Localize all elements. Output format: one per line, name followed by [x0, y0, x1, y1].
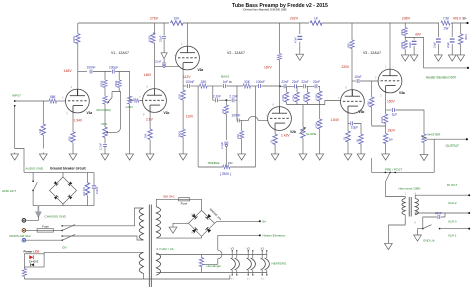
- svg-text:47K: 47K: [347, 43, 351, 48]
- svg-text:Hammond 108N: Hammond 108N: [399, 186, 421, 190]
- resistor 1K 3W: [383, 134, 387, 144]
- ground V1a cathode: [69, 153, 77, 161]
- svg-text:Derived from Marshall JCM 800: Derived from Marshall JCM 800 1986: [244, 8, 288, 12]
- diode bridge d1: [192, 213, 198, 219]
- transformer OT core: [409, 197, 411, 217]
- capacitor 10uF bypass: [351, 122, 353, 126]
- resistor 470K row3: [305, 92, 309, 102]
- svg-text:LIN: LIN: [228, 161, 233, 165]
- svg-text:470K: 470K: [281, 95, 285, 101]
- resistor 100K bleeder: [459, 34, 463, 45]
- svg-text:7.5K: 7.5K: [443, 17, 450, 21]
- wire MidFreq pot to MID pot: [104, 104, 106, 127]
- svg-text:470K: 470K: [114, 80, 118, 87]
- svg-text:470K: 470K: [292, 95, 296, 101]
- svg-text:2W: 2W: [444, 27, 449, 31]
- capacitor 2.2nF left: [216, 98, 218, 102]
- wire bottom return: [24, 274, 230, 280]
- wire filter cap 2: [451, 23, 453, 54]
- svg-text:100nF: 100nF: [185, 80, 194, 84]
- op V3a triode: [378, 69, 402, 93]
- fuse HT: [179, 198, 190, 201]
- svg-text:DI OUT: DI OUT: [447, 183, 457, 187]
- wire to 100nF: [251, 85, 258, 87]
- capacitor 100nF coupling: [90, 70, 92, 74]
- svg-text:22µF: 22µF: [159, 35, 163, 42]
- wire to 1nF: [207, 85, 223, 87]
- ground V1b cathode: [146, 153, 154, 161]
- svg-text:68K: 68K: [50, 95, 57, 99]
- svg-text:22nF: 22nF: [301, 80, 308, 84]
- resistor 7.5K 2W on rail: [441, 21, 450, 25]
- wire OT secondary top to XLR2: [415, 195, 469, 198]
- ground OT primary: [385, 242, 393, 250]
- capacitor 100nF tone out: [259, 84, 261, 88]
- svg-text:401V: 401V: [453, 16, 462, 20]
- ground V2a cathode: [179, 153, 187, 161]
- wire branch decoupling: [163, 23, 165, 53]
- svg-text:40V: 40V: [415, 32, 422, 36]
- wire input sleeve down: [15, 106, 24, 173]
- wire cap to V3a grid: [360, 80, 378, 82]
- svg-text:V3 - 12AU7: V3 - 12AU7: [363, 51, 381, 55]
- wire heater top: [156, 254, 266, 256]
- wire humdinger ends: [201, 255, 203, 273]
- resistor 100 1W breaker: [85, 183, 89, 196]
- svg-text:47nF: 47nF: [294, 37, 298, 43]
- svg-text:Fuse: Fuse: [181, 202, 188, 206]
- svg-text:AUDIO GND: AUDIO GND: [26, 167, 44, 171]
- svg-text:XLR-2: XLR-2: [448, 201, 457, 205]
- ground bridge minus: [169, 226, 177, 234]
- wire master bottom to ground: [423, 143, 425, 153]
- svg-text:33K: 33K: [201, 80, 208, 84]
- resistor 100K V1a plate load: [76, 34, 80, 44]
- capacitor 2.2uF on treble feed: [224, 142, 228, 144]
- terminal N ring: [22, 238, 26, 242]
- node circle under cap: [163, 65, 165, 67]
- switch pre/post blade: [386, 172, 391, 181]
- wire treble pot bottom: [198, 166, 255, 168]
- capacitor 1nF tone: [224, 84, 226, 88]
- svg-text:470K: 470K: [314, 122, 318, 128]
- svg-text:2.2nF: 2.2nF: [213, 94, 221, 98]
- svg-text:Humdinger: Humdinger: [207, 264, 222, 268]
- capacitor 22uF divider: [412, 41, 417, 44]
- svg-text:220V: 220V: [342, 65, 351, 69]
- svg-text:MAINS 230 VAC: MAINS 230 VAC: [10, 234, 31, 238]
- svg-text:1.42V: 1.42V: [281, 133, 290, 137]
- ground input: [11, 153, 19, 161]
- ground bleeder: [457, 54, 465, 62]
- diode bridge d2: [205, 214, 211, 220]
- ground 470K column: [316, 153, 324, 161]
- wire PE to chassis: [26, 216, 39, 220]
- connector heater V1: [261, 250, 270, 275]
- resistor 820 V1a cathode: [71, 132, 75, 143]
- svg-text:V1a: V1a: [87, 111, 93, 115]
- wire V1b plate riser: [153, 23, 155, 89]
- svg-text:CHASSIS GND: CHASSIS GND: [45, 215, 67, 219]
- box LED: [24, 254, 44, 267]
- resistor grid stopper V1b: [134, 99, 140, 103]
- wire bridged-T left drop: [213, 86, 215, 100]
- svg-text:Power LED: Power LED: [24, 249, 41, 253]
- wire N to switch: [26, 239, 63, 241]
- svg-text:47K: 47K: [366, 101, 370, 106]
- wire 100nF to V2b grid: [236, 100, 238, 120]
- resistor 1K V3b cathode: [346, 131, 350, 142]
- wire bus under resistors: [287, 101, 320, 153]
- wire tone stack right leg: [255, 86, 257, 167]
- svg-text:TREBLE: TREBLE: [208, 161, 220, 165]
- arrow down: [161, 53, 167, 59]
- svg-text:47K: 47K: [236, 134, 240, 139]
- resistor V2a cathode lower: [181, 129, 185, 137]
- resistor 1M bridged-T: [224, 105, 228, 114]
- svg-text:2.2nF: 2.2nF: [99, 143, 103, 150]
- svg-text:187V: 187V: [264, 65, 273, 69]
- svg-text:V3a: V3a: [399, 91, 405, 95]
- svg-text:V2: V2: [246, 246, 250, 250]
- ground snubber: [296, 53, 304, 61]
- resistor 100K V3a cathode: [383, 114, 387, 124]
- connector heater V3: [231, 250, 240, 275]
- node V1a plate junction: [78, 71, 87, 73]
- resistor V1b cathode: [148, 129, 152, 140]
- ground grid leak: [238, 153, 246, 161]
- wire bridge plus to B+: [215, 221, 260, 223]
- svg-text:Heater Elevation 60V: Heater Elevation 60V: [426, 75, 457, 79]
- wire cap row: [280, 86, 320, 91]
- svg-text:OUTPUT: OUTPUT: [446, 144, 460, 148]
- potentiometer MID: [103, 127, 107, 138]
- svg-text:} 250K {: } 250K {: [220, 172, 232, 176]
- wire cathode output branch: [386, 109, 392, 111]
- svg-text:3W: 3W: [389, 138, 394, 142]
- svg-text:V1b: V1b: [164, 111, 170, 115]
- op V1a triode: [66, 89, 90, 113]
- svg-text:Mid FREQ: Mid FREQ: [97, 108, 112, 112]
- terminal L ring: [22, 229, 26, 233]
- resistor LED series: [22, 269, 26, 277]
- resistor 2.2K grid leak: [239, 131, 243, 139]
- svg-text:10K: 10K: [178, 94, 182, 99]
- capacitor 22uF filter 2: [450, 39, 455, 42]
- svg-text:GAIN: GAIN: [126, 105, 133, 109]
- op V2a triode: [176, 46, 200, 70]
- resistor 100K V1b plate: [151, 33, 155, 43]
- capacitor 2.2nF right: [232, 98, 234, 102]
- capacitor 22nF coupling to V2a: [162, 63, 166, 65]
- wire V3b plate riser: [351, 23, 353, 96]
- switch GND LIFT: [32, 180, 34, 182]
- wire breaker top bus: [24, 171, 94, 173]
- switch pre/post dots: [385, 172, 387, 174]
- wire top rail: [78, 22, 467, 24]
- wire stub to 820K right: [118, 72, 120, 81]
- wire heater elevation tap with hop: [204, 235, 260, 264]
- svg-text:6.3 VAC / 2A: 6.3 VAC / 2A: [157, 247, 174, 251]
- wire 820K right down: [112, 88, 121, 128]
- svg-text:1nF: 1nF: [223, 80, 229, 84]
- pot arrow MASTER: [422, 136, 427, 139]
- capacitor 22uF filter 1: [436, 39, 441, 42]
- svg-text:292V: 292V: [290, 16, 299, 20]
- transformer primary winding: [139, 208, 143, 240]
- svg-text:100nF: 100nF: [86, 66, 95, 70]
- wire V2b plate riser: [279, 23, 281, 108]
- capacitor 22uF decoupling: [162, 37, 166, 39]
- pot arrow Mid FREQ: [108, 92, 113, 104]
- transformer HT secondary winding: [156, 207, 160, 238]
- wire V1a plate riser: [77, 23, 79, 96]
- svg-text:470K: 470K: [302, 95, 306, 101]
- wire to 33K: [190, 85, 199, 87]
- capacitor 10nF coupling: [357, 79, 359, 83]
- svg-text:1M: 1M: [221, 108, 225, 113]
- node output dot: [466, 138, 468, 140]
- wire V2a cathode down: [182, 63, 184, 153]
- capacitor 100nF V2b grid: [237, 118, 239, 122]
- wire bridge2 bottom: [62, 204, 64, 206]
- node junction dot: [279, 85, 281, 87]
- wire 47nF branch: [423, 213, 445, 228]
- svg-text:22µF: 22µF: [408, 42, 412, 48]
- svg-text:100K: 100K: [148, 35, 152, 42]
- pot arrow SLOPE: [300, 128, 306, 134]
- svg-text:V1 - 12AX7: V1 - 12AX7: [111, 51, 129, 55]
- rectifier bridge main: [189, 210, 215, 236]
- diode bridge2 d1: [54, 181, 59, 186]
- svg-text:B+: B+: [263, 220, 267, 224]
- ground divider cap: [410, 54, 418, 62]
- svg-text:INPUT: INPUT: [12, 94, 21, 98]
- op V3b triode: [341, 90, 365, 114]
- svg-text:SLOPE: SLOPE: [306, 132, 316, 136]
- resistor 100K divider lower: [403, 40, 407, 49]
- svg-text:100K: 100K: [380, 116, 384, 123]
- svg-text:XLR-3: XLR-3: [448, 219, 457, 223]
- wire gnd lift to ground: [418, 229, 423, 234]
- wire OT primary bottom to ground: [388, 215, 405, 242]
- node XLR3 dot: [468, 212, 470, 214]
- wire tone stack left leg: [197, 86, 199, 167]
- wire bridged-T middle: [218, 99, 231, 101]
- wire 40V node: [405, 38, 468, 68]
- resistor 100K divider upper: [403, 28, 407, 36]
- node heater elevation dot: [259, 234, 261, 236]
- node circle under 2.2uF cap: [225, 144, 227, 146]
- svg-text:100nF: 100nF: [256, 80, 265, 84]
- wire GAIN pot to ground: [129, 104, 131, 153]
- wire LED box to resistor: [23, 267, 25, 279]
- switch gnd lift XLR: [422, 228, 424, 230]
- capacitor 100nF breaker: [92, 186, 96, 188]
- resistor 33K tone second: [243, 84, 251, 88]
- svg-text:22nF: 22nF: [281, 80, 288, 84]
- switch mains pole1: [61, 230, 63, 232]
- svg-text:110V: 110V: [186, 114, 194, 118]
- wire fuse to switch: [53, 229, 62, 231]
- svg-text:150V: 150V: [387, 100, 396, 104]
- ground XLR lift: [414, 234, 422, 242]
- wire V1a cathode: [72, 106, 74, 153]
- capacitor 22nF row4: [315, 84, 317, 88]
- potentiometer MASTER: [422, 134, 426, 143]
- wire to master: [395, 110, 424, 134]
- svg-text:820: 820: [68, 136, 72, 141]
- pot arrow MID wiper from 120.5 line: [108, 127, 121, 133]
- ground GAIN pot: [126, 153, 134, 161]
- svg-text:GND LIFT: GND LIFT: [2, 189, 16, 193]
- wire tone chain from V2a: [183, 85, 187, 87]
- transformer core: [149, 205, 151, 288]
- svg-text:296V: 296V: [402, 16, 411, 20]
- svg-text:1N4003: 1N4003: [29, 260, 39, 264]
- node B+ terminal dot: [259, 220, 261, 222]
- capacitor 47nF ground lift: [438, 215, 440, 219]
- capacitor 22nF row3: [304, 84, 306, 88]
- svg-text:Heater Elevation: Heater Elevation: [263, 234, 286, 238]
- resistor 470K row1: [284, 92, 288, 102]
- svg-text:100nF: 100nF: [95, 186, 99, 194]
- svg-text:MID: MID: [102, 122, 108, 126]
- svg-text:276V: 276V: [150, 16, 159, 20]
- transformer LV primary aux winding: [139, 252, 143, 273]
- transformer OT secondary: [415, 198, 418, 214]
- capacitor 100uF coupling: [112, 70, 114, 74]
- transformer OT primary: [402, 198, 405, 214]
- svg-text:470K: 470K: [314, 94, 318, 100]
- potentiometer TREBLE: [223, 165, 230, 169]
- wire cap branch breaker: [93, 172, 95, 205]
- wire heater divider drop: [404, 23, 406, 54]
- svg-text:182V: 182V: [388, 129, 397, 133]
- wire bridge minus to ground: [173, 223, 189, 225]
- ground MID chain: [101, 153, 109, 161]
- wire cap to V1b grid drop: [115, 72, 129, 97]
- wire MID pot to cap: [104, 138, 106, 144]
- wire bridge2 top: [62, 172, 64, 177]
- wire to XLR1: [440, 228, 469, 230]
- ground divider: [401, 54, 409, 62]
- ground MASTER: [420, 153, 428, 161]
- diode 1N4003 reverse: [31, 263, 34, 266]
- wire hop to grid: [239, 116, 268, 120]
- wire OT secondary bottom: [415, 213, 469, 215]
- node XLR1 dot: [468, 228, 470, 230]
- node bridged-T dot: [225, 99, 227, 101]
- wire HT bottom to bridge: [156, 236, 201, 238]
- resistor 820K left: [103, 80, 107, 88]
- wire breaker bottom bus: [33, 205, 94, 207]
- svg-text:1.84V: 1.84V: [331, 118, 340, 122]
- svg-text:MASTER: MASTER: [428, 132, 442, 136]
- op V1b triode: [143, 89, 167, 113]
- wire grid leak drop: [241, 120, 243, 152]
- svg-text:AC: AC: [191, 214, 195, 217]
- LED red: [29, 255, 33, 259]
- svg-text:356 VAC: 356 VAC: [163, 195, 176, 199]
- ground SLOPE: [299, 153, 307, 161]
- resistor 1K V2b cathode: [273, 134, 277, 145]
- svg-text:22nF: 22nF: [313, 80, 320, 84]
- resistor 47K V3b plate: [350, 40, 354, 49]
- svg-text:B+: B+: [463, 16, 467, 20]
- svg-text:Fuse: Fuse: [42, 224, 49, 228]
- resistor V2a cathode upper: [181, 90, 185, 100]
- svg-text:22µF: 22µF: [432, 42, 436, 48]
- svg-text:100µF: 100µF: [109, 66, 118, 70]
- svg-text:100K: 100K: [400, 29, 404, 35]
- svg-text:146V: 146V: [144, 73, 153, 77]
- svg-text:1µF: 1µF: [392, 113, 398, 117]
- ground V2b cathode: [271, 153, 279, 161]
- pot arrow TREBLE: [225, 165, 227, 168]
- svg-text:PRE / POST: PRE / POST: [385, 168, 402, 172]
- ground filter 2: [448, 54, 456, 62]
- svg-text:10K: 10K: [144, 133, 148, 138]
- capacitor 2.2nF to ground: [103, 145, 107, 147]
- wire LED feed from winding: [44, 252, 143, 254]
- wire V3b plate coupling branch: [352, 80, 356, 82]
- svg-text:2.2µF: 2.2µF: [220, 142, 224, 149]
- svg-text:1K: 1K: [343, 136, 347, 140]
- wire rail snubber cap: [299, 23, 301, 53]
- wire gnd lift drop: [32, 172, 34, 205]
- wire bypass to resistor: [354, 124, 361, 153]
- resistor 1K on rail: [310, 21, 322, 25]
- potentiometer SLOPE: [301, 127, 305, 138]
- svg-text:1.94V: 1.94V: [74, 118, 83, 122]
- svg-text:100K: 100K: [72, 36, 76, 43]
- svg-text:33K: 33K: [244, 80, 251, 84]
- ground bypass chain: [357, 153, 365, 161]
- wire 68K to V1a grid: [57, 100, 66, 102]
- wire L to fuse: [26, 229, 37, 231]
- wire 820K left to MidFreq pot: [104, 88, 106, 97]
- fuse mains: [37, 229, 53, 232]
- wire V1b cathode: [149, 105, 151, 152]
- wire grid feed V3b: [320, 101, 341, 105]
- wire 1M drop: [42, 101, 44, 149]
- svg-text:V2 - 12AX7: V2 - 12AX7: [227, 51, 245, 55]
- resistor bypass chain: [359, 134, 363, 144]
- diode bridge d4: [205, 227, 211, 233]
- svg-text:100K: 100K: [464, 34, 468, 40]
- wire 47K divider branch: [372, 81, 386, 126]
- diode bridge d3: [192, 227, 198, 233]
- wire res100 branch: [86, 172, 88, 205]
- wire V3a cathode: [385, 86, 387, 153]
- wire pole1 to primary: [62, 208, 143, 226]
- svg-text:100K: 100K: [178, 131, 182, 138]
- wire to 33K second: [226, 85, 243, 87]
- resistor 33K tone: [200, 84, 208, 88]
- capacitor 22nF row1: [284, 84, 286, 88]
- wire output tap down: [372, 139, 435, 172]
- svg-text:47nF: 47nF: [435, 211, 442, 215]
- connector heater V2: [247, 250, 256, 275]
- potentiometer GAIN: [127, 96, 131, 104]
- wire pole2 to primary bottom: [62, 236, 143, 240]
- svg-text:10K: 10K: [174, 16, 181, 20]
- ground filter 1: [435, 54, 443, 62]
- svg-text:22nF: 22nF: [155, 60, 162, 64]
- wire divider cap: [413, 38, 415, 54]
- svg-text:BASS: BASS: [221, 75, 229, 79]
